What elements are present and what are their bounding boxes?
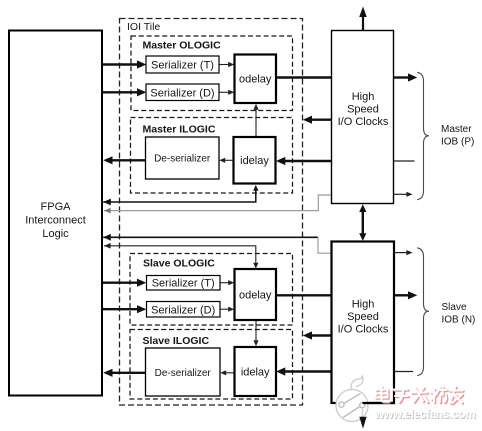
block slave odelay: [235, 269, 277, 320]
wire slave Serializer (T) to odelay: [220, 280, 234, 285]
svg-text:Slave ILOGIC: Slave ILOGIC: [143, 335, 210, 347]
slave box bottom edge over watermark: [363, 402, 395, 404]
svg-text:Serializer (D): Serializer (D): [151, 304, 215, 316]
wire slave odelay output to IOB pad (through clocks box): [276, 291, 417, 299]
block slave De-serializer: [146, 348, 221, 396]
watermark url text: [374, 407, 476, 422]
wire FPGA to master idelay bottom: [103, 185, 258, 206]
block slave Serializer (T): [147, 276, 221, 291]
svg-text:Master: Master: [441, 124, 472, 135]
block slave idelay: [235, 347, 277, 396]
svg-text:IOI Tile: IOI Tile: [127, 21, 160, 33]
watermark text dianzifashaoyou: [377, 388, 464, 405]
wire slave clock into IOI tile: [303, 331, 332, 339]
block master De-serializer: [146, 137, 220, 179]
block FPGA Interconnect Logic: [9, 31, 102, 396]
double-headed arrow between clocks boxes: [359, 204, 366, 241]
wire FPGA to slave odelay top: [104, 243, 258, 269]
svg-text:Serializer (T): Serializer (T): [151, 59, 214, 71]
thin output arrow master clocks to pad (T): [394, 192, 413, 197]
svg-text:De-serializer: De-serializer: [154, 154, 211, 165]
svg-text:FPGA: FPGA: [41, 201, 72, 213]
block master High Speed I/O Clocks: [332, 31, 394, 204]
IOI Tile dashed boundary: [120, 19, 303, 406]
svg-text:idelay: idelay: [240, 155, 269, 167]
wire FPGA to master Serializer (D): [103, 88, 146, 96]
watermark logo (elecfans scooter): [336, 377, 368, 422]
block slave Serializer (D): [147, 302, 221, 318]
block master Serializer (D): [146, 84, 219, 101]
svg-text:Speed: Speed: [347, 104, 379, 116]
bottom arrow from slave clocks box (shaft): [361, 403, 363, 418]
wire slave De-serializer to FPGA: [103, 369, 145, 377]
svg-text:Slave OLOGIC: Slave OLOGIC: [143, 258, 215, 270]
block master Serializer (T): [146, 56, 219, 73]
svg-text:Logic: Logic: [42, 228, 69, 240]
wire FPGA to slave clocks box: [103, 234, 331, 253]
wire master idelay top to odelay bottom: [253, 104, 258, 137]
svg-text:Interconnect: Interconnect: [25, 215, 86, 227]
svg-text:Serializer (T): Serializer (T): [152, 277, 215, 289]
wire IOB pad input to master idelay: [276, 157, 415, 165]
wire master idelay to De-serializer: [219, 158, 233, 163]
svg-text:Master OLOGIC: Master OLOGIC: [143, 40, 222, 52]
svg-text:odelay: odelay: [239, 289, 272, 301]
svg-text:IOB (N): IOB (N): [442, 314, 476, 325]
svg-text:Slave: Slave: [442, 302, 467, 313]
svg-text:Speed: Speed: [347, 311, 379, 323]
block slave High Speed I/O Clocks: [332, 242, 395, 404]
wire master De-serializer to FPGA: [103, 156, 145, 164]
Master ILOGIC dashed boundary: [131, 118, 293, 194]
gray wire FPGA to master clocks box: [104, 195, 332, 213]
Slave OLOGIC dashed boundary: [130, 254, 293, 326]
wire IOB pad input to slave idelay: [276, 367, 413, 375]
svg-text:www.elecfans.com: www.elecfans.com: [374, 407, 476, 421]
wire slave odelay bottom to idelay top: [253, 320, 258, 346]
label Master IOB (P): [441, 124, 474, 148]
block master odelay: [235, 55, 277, 104]
svg-text:De-serializer: De-serializer: [155, 368, 212, 379]
Master OLOGIC dashed boundary: [131, 36, 293, 111]
wire master Serializer (T) to odelay: [219, 62, 234, 67]
svg-text:I/O Clocks: I/O Clocks: [338, 116, 389, 128]
wire master odelay output to IOB pad (through clocks box): [276, 73, 417, 81]
svg-text:I/O Clocks: I/O Clocks: [338, 323, 389, 335]
wire FPGA to slave Serializer (D): [103, 305, 146, 313]
brace slave IOB: [417, 248, 429, 376]
svg-text:High: High: [352, 298, 375, 310]
svg-text:odelay: odelay: [239, 73, 272, 85]
wire master clock into IOI tile: [303, 116, 332, 124]
svg-text:IOB (P): IOB (P): [441, 136, 474, 147]
wire slave Serializer (D) to odelay: [220, 307, 234, 312]
wire slave idelay to De-serializer: [220, 370, 234, 375]
Slave ILOGIC dashed boundary: [130, 330, 293, 400]
bottom arrowhead of slave down arrow: [359, 417, 366, 429]
svg-text:idelay: idelay: [241, 366, 270, 378]
svg-text:Serializer (D): Serializer (D): [150, 87, 214, 99]
block master idelay: [234, 137, 276, 184]
svg-text:Master ILOGIC: Master ILOGIC: [143, 124, 216, 136]
label Slave IOB (N): [442, 302, 476, 326]
brace master IOB: [417, 72, 429, 199]
wire FPGA to master Serializer (T): [103, 60, 146, 68]
svg-text:High: High: [352, 91, 375, 103]
thin output arrow slave clocks to pad (T): [394, 250, 413, 255]
wire FPGA to slave Serializer (T): [103, 279, 146, 287]
top arrow from master clocks box: [359, 7, 367, 31]
wire master Serializer (D) to odelay: [219, 90, 234, 95]
